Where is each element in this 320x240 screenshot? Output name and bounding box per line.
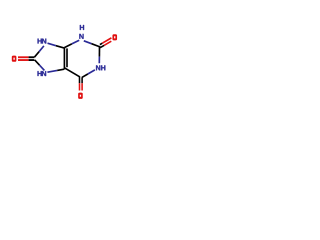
bond C8-N7 [35, 60, 45, 71]
atom O8 (left oxygen) [12, 56, 17, 62]
bond N7-C5 [47, 69, 64, 72]
bond C2=O2 (right carbonyl double bond) [100, 38, 112, 48]
bond C4=C5 (ring fusion double bond) [64, 48, 67, 70]
atom N3 label N with H above (top-center) [79, 25, 84, 39]
bond N9-C4 [48, 43, 65, 48]
bond C4-N3 [64, 40, 79, 47]
atom N1 label NH (right) [96, 65, 105, 70]
bond C2-N1 [98, 47, 100, 64]
atom O2 (right oxygen) [112, 34, 117, 40]
atom N9 label HN (top-left) [38, 39, 47, 44]
bond C8=O8 (left carbonyl double bond) [18, 57, 34, 60]
bond N3-C2 [84, 41, 100, 47]
bond C8-N9 [34, 46, 44, 57]
bond C6=O6 (bottom carbonyl double bond) [80, 76, 83, 90]
bond C5-C6 [64, 68, 79, 77]
node C2 (vertex joint) [99, 46, 100, 47]
atom N7 label HN (bottom-left) [38, 71, 47, 76]
bond N1-C6 [82, 70, 95, 78]
atom O6 (bottom oxygen) [78, 93, 83, 99]
